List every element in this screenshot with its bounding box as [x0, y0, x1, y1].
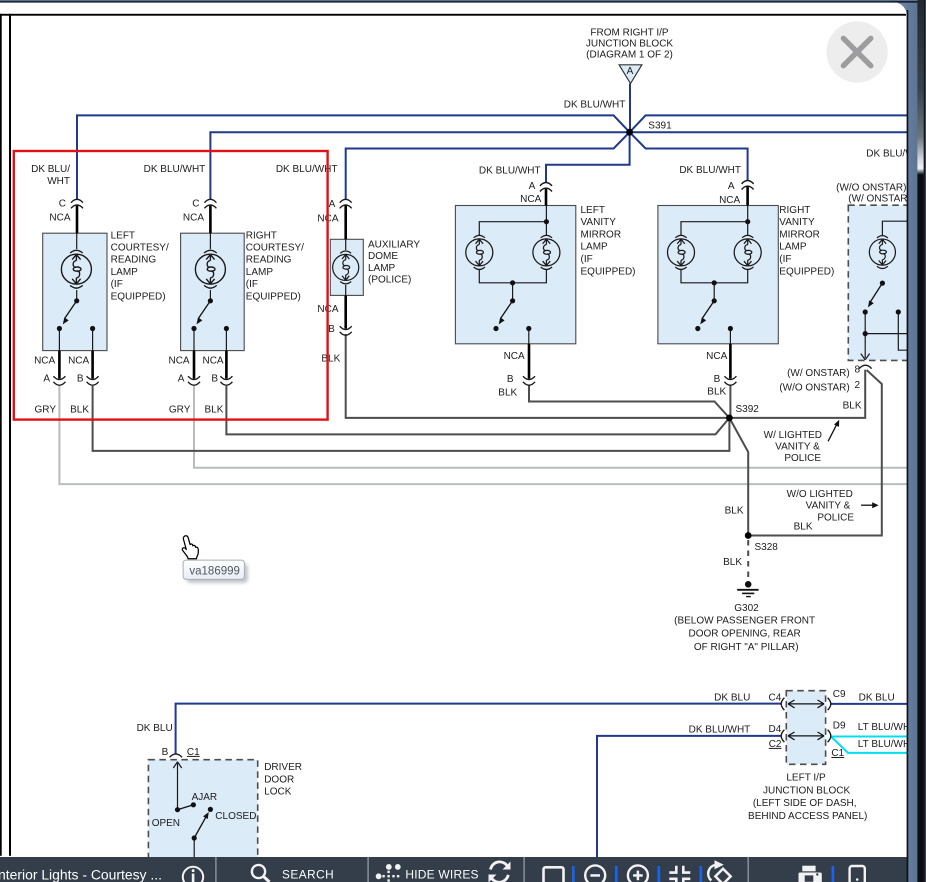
- wire aux box top to bulb: [345, 239, 347, 250]
- bulb right vanity 2: [734, 235, 761, 269]
- bulb right vanity 1: [668, 235, 695, 269]
- svg-text:OF RIGHT "A" PILLAR): OF RIGHT "A" PILLAR): [694, 642, 799, 653]
- bulb symbols: [61, 235, 895, 288]
- svg-text:VANITY &: VANITY &: [775, 442, 820, 453]
- svg-text:BLK: BLK: [204, 405, 223, 416]
- hide wires dots icon: [376, 864, 401, 882]
- wire DK BLU/WHT from bottom to junction block D4: [597, 736, 781, 857]
- wire lamp2 bulb to switch: [209, 290, 211, 300]
- fit screen icon: [669, 866, 690, 882]
- annotation arrow w/ lighted: [828, 420, 879, 508]
- svg-text:EQUIPPED): EQUIPPED): [581, 266, 636, 277]
- svg-text:LEFT: LEFT: [111, 230, 135, 241]
- svg-text:NCA: NCA: [504, 351, 525, 362]
- svg-text:A: A: [43, 374, 50, 385]
- wire DK BLU/WHT lamp2 feed: [210, 132, 629, 199]
- phone icon: [850, 866, 865, 882]
- wire onstar contact left down to junction: [864, 314, 866, 334]
- wire lamp2 box top to bulb: [209, 233, 211, 249]
- svg-text:B: B: [77, 374, 84, 385]
- connector C lamp2: [204, 199, 216, 208]
- svg-text:(W/ ONSTAR: (W/ ONSTAR: [848, 194, 907, 205]
- stub lamp2 top: [209, 205, 212, 233]
- svg-text:C: C: [192, 199, 199, 210]
- svg-text:D9: D9: [833, 720, 846, 731]
- svg-text:NCA: NCA: [706, 351, 727, 362]
- junction block connector rows: [781, 698, 831, 742]
- svg-text:COURTESY/: COURTESY/: [246, 243, 304, 254]
- svg-text:C1: C1: [187, 747, 200, 758]
- wire DK BLU/WHT aux dome feed: [346, 132, 630, 199]
- wire right vanity bulbs bottom bus: [681, 270, 748, 283]
- wire right vanity bus to switch: [713, 283, 715, 300]
- wire from triangle A to S391: [629, 84, 631, 133]
- wire DK BLU/WHT left vanity feed: [546, 132, 630, 183]
- svg-text:B: B: [507, 374, 514, 385]
- junction row C4/C9 arcs: [781, 698, 784, 710]
- svg-text:FROM RIGHT I/P: FROM RIGHT I/P: [590, 28, 668, 39]
- stub lamp1 top: [76, 205, 79, 233]
- wire S391 right straight to page edge: [630, 131, 907, 133]
- switch arm left vanity: [501, 301, 513, 318]
- wire lamp1 bulb to switch: [76, 290, 78, 300]
- tooltip va186999: [183, 560, 248, 583]
- bulb aux dome: [333, 251, 359, 284]
- svg-text:BLK: BLK: [70, 405, 89, 416]
- svg-text:W/O LIGHTED: W/O LIGHTED: [787, 489, 853, 500]
- right edge strips: [907, 10, 909, 882]
- left I/P junction block box (dashed): [786, 691, 825, 765]
- close button: [827, 21, 888, 82]
- red highlight box: [14, 151, 328, 420]
- connector B lamp2 bottom: [220, 376, 232, 385]
- svg-text:GRY: GRY: [35, 405, 57, 416]
- connector A lamp2 bottom: [188, 376, 200, 385]
- svg-text:DOOR: DOOR: [264, 774, 294, 785]
- wire left vanity bus to switch: [512, 283, 514, 300]
- wire onstar feed: [882, 221, 907, 235]
- svg-text:LEFT I/P: LEFT I/P: [786, 772, 826, 783]
- svg-text:(W/O ONSTAR): (W/O ONSTAR): [779, 382, 849, 393]
- square icon: [544, 867, 564, 882]
- blue separator: [832, 866, 835, 882]
- connector 8/2 onstar single arc: [859, 365, 871, 368]
- separator: [367, 857, 368, 882]
- wire left vanity bulbs bottom bus: [479, 270, 546, 283]
- junction row C4/C9 arrow: [788, 700, 824, 708]
- stub lamp2 B: [225, 351, 228, 379]
- wire left vanity contact B down: [528, 329, 530, 344]
- drawing frame top border: [0, 14, 906, 16]
- stub lamp1 A: [58, 351, 61, 379]
- lamp L3 box: auxiliary dome lamp: [330, 239, 363, 295]
- svg-text:NCA: NCA: [202, 356, 223, 367]
- switch arm door lock closed: [194, 816, 206, 838]
- svg-text:DOME: DOME: [368, 251, 398, 262]
- svg-text:BLK: BLK: [723, 557, 742, 568]
- svg-text:SEARCH: SEARCH: [282, 868, 334, 882]
- node S328: [745, 532, 752, 539]
- svg-text:(W/O ONSTAR): (W/O ONSTAR): [836, 183, 906, 194]
- svg-text:va186999: va186999: [189, 566, 240, 578]
- svg-text:NCA: NCA: [168, 356, 189, 367]
- connector A lamp1 bottom: [53, 376, 65, 385]
- svg-text:B: B: [162, 747, 169, 758]
- connector B aux bottom: [340, 326, 352, 335]
- svg-text:S392: S392: [736, 404, 760, 415]
- svg-text:AJAR: AJAR: [192, 792, 218, 803]
- svg-text:JUNCTION BLOCK: JUNCTION BLOCK: [763, 785, 851, 796]
- svg-text:NCA: NCA: [68, 356, 89, 367]
- wire lamp1 box top to bulb: [76, 233, 78, 249]
- svg-text:LAMP: LAMP: [111, 267, 139, 278]
- svg-text:VANITY: VANITY: [581, 217, 617, 228]
- switch arm onstar: [871, 283, 883, 301]
- driver door lock box (dashed): [148, 760, 257, 860]
- printer icon: [799, 866, 822, 882]
- drawing frame left inner border: [9, 14, 11, 856]
- svg-text:LAMP: LAMP: [368, 263, 396, 274]
- thin internal wires: [59, 206, 907, 858]
- svg-text:(BELOW PASSENGER FRONT: (BELOW PASSENGER FRONT: [674, 616, 815, 627]
- svg-text:MIRROR: MIRROR: [581, 229, 622, 240]
- ground G302: [737, 582, 758, 597]
- svg-text:NCA: NCA: [183, 213, 204, 224]
- wire onstar right contact out: [898, 314, 907, 350]
- node S392: [726, 415, 733, 422]
- zoom in icon: [628, 865, 648, 882]
- svg-text:DK BLU/WHT: DK BLU/WHT: [689, 725, 751, 736]
- svg-text:A: A: [329, 199, 336, 210]
- svg-text:MIRROR: MIRROR: [779, 229, 820, 240]
- bulb onstar dome: [869, 236, 895, 269]
- svg-text:A: A: [529, 181, 536, 192]
- top navy bar: [0, 0, 926, 1]
- svg-text:EQUIPPED): EQUIPPED): [779, 266, 834, 277]
- svg-text:DOOR OPENING, REAR: DOOR OPENING, REAR: [688, 629, 800, 640]
- triangle A (from right I/P junction block): [619, 65, 642, 84]
- wire door lock closed contact vertical: [193, 838, 195, 857]
- svg-text:POLICE: POLICE: [817, 512, 854, 523]
- bulb lamp2: [195, 250, 225, 288]
- junction row D4/D9 arcs: [781, 730, 784, 742]
- svg-text:C4: C4: [769, 692, 782, 703]
- separator: [748, 857, 749, 882]
- svg-text:DK BLU: DK BLU: [714, 693, 750, 704]
- wire aux bulb to box bottom: [345, 285, 347, 295]
- svg-text:D4: D4: [769, 724, 782, 735]
- svg-text:(IF: (IF: [779, 254, 791, 265]
- switch lamp1: [74, 298, 79, 303]
- switches (dots and arms): [57, 219, 901, 841]
- wire lamp2 contact A down: [193, 329, 195, 351]
- wire GRY lamp1: [59, 386, 907, 484]
- stub aux bottom: [344, 295, 347, 328]
- svg-text:NCA: NCA: [49, 213, 70, 224]
- svg-text:S391: S391: [648, 120, 672, 131]
- wire onstar junction right to edge: [865, 333, 907, 335]
- svg-text:DK BLU/WHT: DK BLU/WHT: [564, 99, 626, 110]
- wire LT BLU/WHT junction block out 2: [831, 737, 907, 753]
- lamp L5 box: right vanity mirror lamp: [658, 206, 778, 344]
- svg-text:LT BLU/WH: LT BLU/WH: [858, 722, 910, 733]
- lamp L4 box: left vanity mirror lamp: [455, 206, 575, 344]
- svg-text:BLK: BLK: [498, 387, 517, 398]
- connector symbols: [53, 181, 871, 758]
- connector B lamp1 bottom: [87, 376, 99, 385]
- connector A left vanity: [540, 183, 552, 192]
- svg-text:LT BLU/WH: LT BLU/WH: [858, 739, 910, 750]
- svg-text:(POLICE): (POLICE): [368, 275, 411, 286]
- svg-text:B: B: [211, 374, 218, 385]
- wire DK BLU/WHT right vanity feed: [630, 132, 748, 181]
- wire BLK right vanity to S392: [729, 386, 731, 418]
- svg-text:RIGHT: RIGHT: [779, 205, 810, 216]
- connector C lamp1: [71, 199, 83, 208]
- svg-text:EQUIPPED): EQUIPPED): [246, 291, 301, 302]
- svg-text:EQUIPPED): EQUIPPED): [111, 291, 166, 302]
- connector B left vanity bottom: [523, 376, 535, 385]
- separator: [523, 857, 524, 882]
- svg-text:2: 2: [855, 380, 861, 391]
- connector C1 door lock single arc: [170, 754, 182, 757]
- wire BLK S392 to onstar 8/2 connector: [729, 370, 865, 418]
- wire left vanity feed into box: [479, 206, 546, 236]
- bulb lamp1: [61, 250, 91, 288]
- svg-text:(IF: (IF: [246, 279, 258, 290]
- svg-text:NCA: NCA: [34, 356, 55, 367]
- drawing frame left outer border: [0, 14, 2, 856]
- bulb left vanity 2: [533, 235, 560, 269]
- svg-text:B: B: [328, 324, 335, 335]
- lamp L2 box: right courtesy/reading lamp: [181, 233, 245, 350]
- wire BLK lamp2 to S392: [226, 386, 729, 434]
- svg-text:BLK: BLK: [321, 354, 340, 365]
- bulb left vanity 1: [466, 235, 493, 269]
- svg-text:8: 8: [855, 365, 861, 376]
- switch left vanity: [544, 219, 549, 224]
- wire BLK aux dome to S392: [346, 334, 730, 418]
- blue separator: [572, 866, 575, 882]
- svg-text:LEFT: LEFT: [581, 205, 605, 216]
- svg-text:DK BLU/: DK BLU/: [31, 164, 70, 175]
- svg-text:BLK: BLK: [794, 521, 813, 532]
- wire GRY lamp2: [194, 386, 907, 468]
- svg-text:nterior Lights - Courtesy ...: nterior Lights - Courtesy ...: [0, 867, 162, 882]
- zoom out icon: [585, 865, 605, 882]
- steel blue area behind page corner: [890, 0, 924, 882]
- wire right vanity contact B down: [729, 329, 731, 344]
- svg-text:BLK: BLK: [707, 387, 726, 398]
- wire S391 right top to page edge: [630, 115, 907, 132]
- svg-text:DK BLU/WHT: DK BLU/WHT: [144, 164, 206, 175]
- svg-text:LAMP: LAMP: [246, 267, 274, 278]
- svg-text:COURTESY/: COURTESY/: [111, 243, 169, 254]
- svg-text:WHT: WHT: [47, 176, 70, 187]
- svg-text:C: C: [59, 199, 66, 210]
- svg-text:BLK: BLK: [843, 401, 862, 412]
- lamp L1 box: left courtesy/reading lamp: [43, 233, 107, 350]
- separator: [215, 857, 216, 882]
- svg-text:BEHIND ACCESS PANEL): BEHIND ACCESS PANEL): [748, 811, 867, 822]
- svg-text:OPEN: OPEN: [152, 818, 180, 829]
- mouse hand cursor: [182, 536, 198, 559]
- switch arm door lock open-ajar: [178, 805, 194, 810]
- refresh icon: [491, 862, 509, 882]
- wire lamp1 contact B down: [92, 329, 94, 351]
- stub right vanity B: [729, 344, 732, 379]
- blue separator: [615, 866, 618, 882]
- stub lamp2 A: [193, 351, 196, 379]
- svg-text:(W/ ONSTAR): (W/ ONSTAR): [787, 368, 850, 379]
- svg-text:A: A: [627, 66, 634, 77]
- blue separator: [700, 866, 703, 882]
- node S391: [626, 129, 633, 136]
- search icon: [252, 865, 265, 878]
- svg-text:GRY: GRY: [169, 405, 191, 416]
- annotation arrow w/o lighted: [861, 504, 873, 506]
- svg-text:(IF: (IF: [111, 279, 123, 290]
- rotate icon: [715, 869, 730, 882]
- wire BLK S392 to S328: [729, 418, 748, 536]
- svg-text:DRIVER: DRIVER: [264, 762, 302, 773]
- svg-text:LAMP: LAMP: [779, 242, 807, 253]
- svg-text:READING: READING: [111, 255, 157, 266]
- stub left vanity B: [528, 344, 531, 379]
- svg-text:A: A: [178, 374, 185, 385]
- wire BLK left vanity to S392: [529, 386, 729, 418]
- svg-text:G302: G302: [734, 603, 759, 614]
- svg-text:POLICE: POLICE: [784, 453, 821, 464]
- connector A aux: [340, 199, 352, 208]
- switch lamp2: [208, 298, 213, 303]
- wire door lock arrow up: [177, 763, 179, 810]
- svg-text:W/ LIGHTED: W/ LIGHTED: [764, 430, 822, 441]
- wire lamp2 contact B down: [225, 329, 227, 351]
- svg-text:DK BLU: DK BLU: [137, 723, 173, 734]
- connector A right vanity: [742, 181, 754, 190]
- svg-text:S328: S328: [755, 542, 779, 553]
- svg-text:RIGHT: RIGHT: [246, 230, 277, 241]
- svg-text:(IF: (IF: [581, 254, 593, 265]
- wire BLK lamp1 to S392: [93, 386, 730, 451]
- stub aux top: [344, 205, 347, 240]
- svg-text:JUNCTION BLOCK: JUNCTION BLOCK: [586, 39, 674, 50]
- wire BLK dashed S328 to ground: [747, 540, 749, 581]
- svg-text:A: A: [728, 181, 735, 192]
- switch right vanity: [745, 219, 750, 224]
- svg-text:DK BLU/WHT: DK BLU/WHT: [479, 165, 541, 176]
- connector B right vanity bottom: [724, 376, 736, 385]
- svg-text:LAMP: LAMP: [581, 242, 609, 253]
- component boxes: [43, 206, 779, 351]
- stub left vanity top: [545, 188, 548, 205]
- wire onstar junction down with arrow: [864, 334, 866, 358]
- toolbar: [0, 857, 907, 882]
- wire onstar bulb to switch: [881, 283, 883, 285]
- switch onstar: [880, 281, 885, 286]
- svg-text:B: B: [714, 374, 721, 385]
- svg-text:C9: C9: [833, 689, 846, 700]
- svg-text:C1: C1: [831, 748, 844, 759]
- blue separator: [658, 866, 661, 882]
- wire DK BLU junction block right to edge: [831, 703, 907, 705]
- svg-text:VANITY &: VANITY &: [806, 501, 851, 512]
- wire right vanity feed into box: [681, 206, 748, 236]
- svg-text:DK BLU/WHT: DK BLU/WHT: [679, 165, 741, 176]
- wire DK BLU door lock to junction block: [176, 704, 782, 754]
- lamp L6 box: dome/reading lamp w/onstar (dashed): [848, 205, 916, 360]
- svg-text:CLOSED: CLOSED: [215, 811, 256, 822]
- wire LT BLU/WHT junction block out 1: [831, 736, 907, 738]
- wire BLK onstar connector to S328 via right: [748, 370, 882, 536]
- svg-text:C2: C2: [769, 739, 782, 750]
- svg-text:LOCK: LOCK: [264, 787, 292, 798]
- wire lamp1 contact A down: [58, 329, 60, 351]
- junction row D4/D9 arrow: [788, 732, 824, 740]
- svg-text:(DIAGRAM 1 OF 2): (DIAGRAM 1 OF 2): [586, 50, 673, 61]
- svg-text:VANITY: VANITY: [779, 217, 815, 228]
- svg-text:DK BLU: DK BLU: [859, 693, 895, 704]
- svg-text:BLK: BLK: [725, 506, 744, 517]
- black connector stubs: [59, 186, 747, 379]
- info icon: [183, 867, 203, 882]
- switch arm lamp1: [65, 301, 77, 318]
- svg-text:READING: READING: [246, 255, 292, 266]
- svg-text:AUXILIARY: AUXILIARY: [368, 240, 420, 251]
- svg-text:HIDE WIRES: HIDE WIRES: [405, 868, 478, 882]
- svg-text:(LEFT SIDE OF DASH,: (LEFT SIDE OF DASH,: [753, 798, 857, 809]
- switch arm lamp2: [199, 301, 211, 318]
- svg-text:NCA: NCA: [520, 194, 541, 205]
- switch arm right vanity: [702, 301, 714, 318]
- stub right vanity top: [746, 186, 749, 205]
- svg-text:NCA: NCA: [719, 195, 740, 206]
- stub lamp1 B: [91, 351, 94, 379]
- switch door lock dots: [175, 807, 180, 812]
- wire DK BLU/WHT lamp1 feed: [77, 115, 630, 199]
